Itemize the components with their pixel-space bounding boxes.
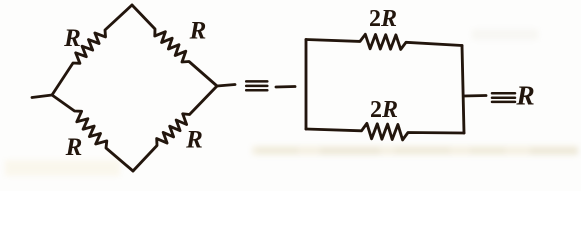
wire: right stub of bridge: [217, 85, 235, 87]
svg-text:R: R: [63, 25, 81, 52]
resistor R5 (top 2R): left lead, zigzag, right lead: [306, 34, 462, 49]
resistor R6 (bottom 2R): left lead, zigzag, right lead: [306, 123, 464, 139]
wire: left terminal stub: [32, 95, 52, 98]
wire: box left vertical: [305, 40, 308, 130]
equivalence symbol (triple bar) before R: [492, 93, 515, 102]
svg-text:2R: 2R: [369, 6, 397, 32]
svg-text:R: R: [189, 17, 207, 44]
svg-text:R: R: [185, 127, 203, 154]
wire: right output stub: [464, 94, 487, 97]
svg-text:R: R: [515, 80, 534, 111]
resistor R3 (bottom-left arm): [52, 95, 133, 171]
equivalence symbol (triple bar) between bridge and box: [246, 81, 267, 90]
svg-text:R: R: [65, 134, 83, 161]
resistor R1 (top-left arm): [52, 5, 132, 95]
wire: box right vertical: [462, 46, 464, 134]
svg-text:2R: 2R: [370, 97, 398, 123]
resistor R2 (top-right arm): [132, 5, 217, 86]
resistor R4 (bottom-right arm): [133, 86, 217, 171]
wire: dash before box: [276, 85, 295, 88]
